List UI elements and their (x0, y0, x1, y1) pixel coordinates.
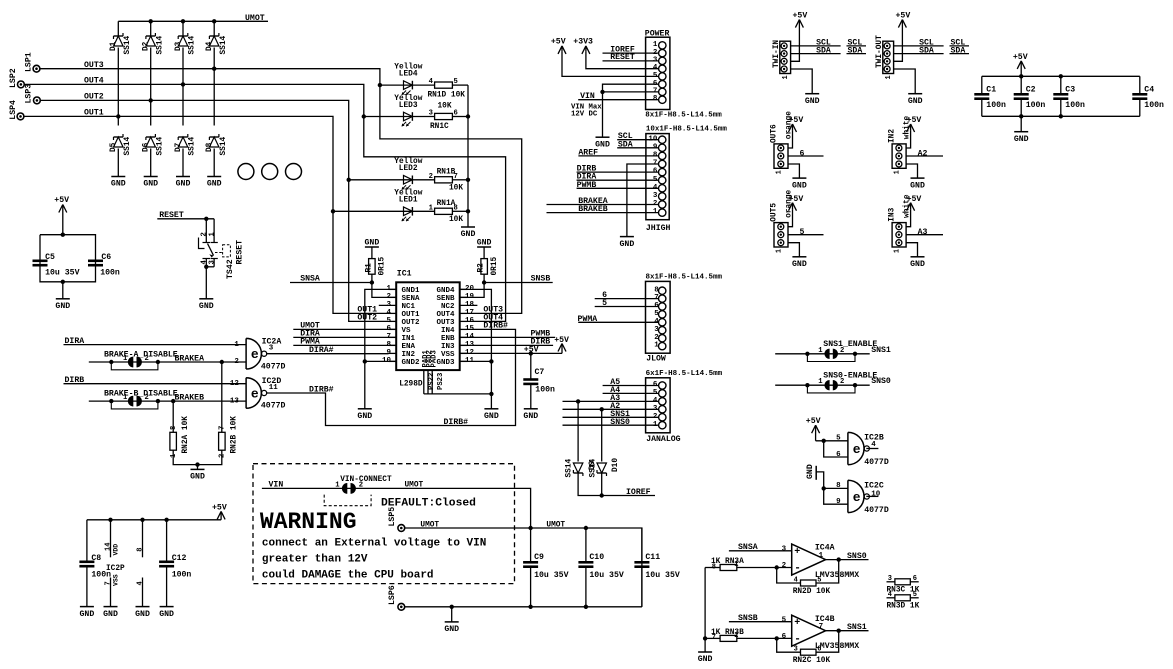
svg-text:+5V: +5V (806, 417, 821, 426)
svg-text:SNS0-ENABLE: SNS0-ENABLE (823, 372, 877, 381)
svg-text:10u 35V: 10u 35V (45, 269, 79, 278)
svg-text:100n: 100n (1026, 101, 1046, 110)
wire cap bank bottom rail (982, 115, 1140, 117)
svg-text:SNS1: SNS1 (871, 346, 891, 355)
svg-text:TWI-IN: TWI-IN (773, 40, 781, 68)
svg-text:8x1F-H8.5-L14.5mm: 8x1F-H8.5-L14.5mm (645, 111, 722, 119)
wire LED4 row (380, 84, 435, 86)
wire BRAKEB to IC2D pin13 (89, 400, 246, 402)
ground IC4P (135, 607, 150, 619)
wire +3V3 to POWER pin4 (586, 52, 659, 69)
svg-text:SNS0: SNS0 (610, 418, 630, 427)
junction jumper B left (109, 399, 113, 403)
wire RN3C right stub (910, 581, 918, 583)
wire net PWMA to pin8 (293, 344, 396, 346)
pin 1 IN3 (896, 240, 902, 246)
svg-text:OUT2: OUT2 (357, 314, 377, 323)
ground IC2C (rotated) (806, 464, 816, 480)
junction C3 bottom (1059, 114, 1063, 118)
svg-text:OUT6: OUT6 (770, 124, 778, 143)
resistor RN1A (435, 208, 453, 214)
wire SCL TWI-OUT (894, 45, 944, 47)
wire C2 bottom (1020, 99, 1022, 117)
wire IC4B output SNS1 (826, 630, 869, 632)
svg-text:AREF: AREF (578, 148, 598, 157)
svg-text:GND: GND (806, 464, 815, 479)
pin 11 IC1 GND3 (460, 360, 468, 362)
junction SNSB R2 (482, 280, 486, 284)
wire RN3B out (737, 637, 792, 639)
IC U1 L298 body (396, 282, 460, 370)
wire SDA stub TWI-IN (847, 53, 867, 55)
svg-text:D5: D5 (110, 142, 118, 152)
wire SCL stub TWI-IN (847, 45, 867, 47)
ground LSP6 rail (444, 622, 459, 634)
capacitor C11 (634, 562, 649, 566)
wire RN3B to IC4B pin6 (705, 637, 720, 639)
svg-text:0R15: 0R15 (491, 256, 499, 275)
pin 5 JLOW (659, 311, 666, 318)
svg-text:D1: D1 (110, 41, 118, 51)
resistor RN3C (895, 579, 910, 585)
pin 6 JLOW (659, 303, 666, 310)
junction UMOT C10 (584, 526, 588, 530)
svg-text:GND: GND (199, 302, 214, 311)
svg-text:6: 6 (782, 633, 787, 641)
svg-text:PS22: PS22 (428, 373, 436, 390)
wire D1 cathode to UMOT rail (117, 21, 119, 36)
svg-text:SS14: SS14 (189, 136, 197, 155)
svg-text:8: 8 (170, 426, 178, 430)
pin 3 JANALOG (659, 406, 666, 413)
svg-text:OUT4: OUT4 (436, 311, 455, 319)
svg-text:SS14: SS14 (565, 458, 573, 477)
junction pin10 GND (363, 359, 367, 363)
wire +5V pin12 (460, 352, 562, 354)
diode D7 (178, 134, 188, 147)
svg-text:+5V: +5V (212, 504, 227, 513)
wire C7 top (530, 353, 532, 379)
wire C10 top (585, 528, 587, 562)
XNOR gate IC2B (4077D) (836, 432, 889, 467)
junction D10 IOREF (600, 493, 604, 497)
wire +5V to POWER pin5 (562, 52, 658, 77)
wire SNS1_ENABLE (775, 353, 870, 355)
svg-text:GND: GND (477, 239, 492, 248)
pin 4 JLOW (659, 319, 666, 326)
junction IC4B pin6 (775, 636, 779, 640)
pin 2 IN3 (896, 232, 902, 238)
ground cap bank (1014, 132, 1029, 144)
svg-text:IC2P: IC2P (106, 565, 125, 573)
wire RN3 left rail (704, 568, 706, 653)
wire net A3 IN3 (906, 234, 943, 236)
svg-text:C5: C5 (45, 253, 55, 262)
wire JHIGH pin7 GND (627, 164, 658, 237)
svg-text:BRAKEB: BRAKEB (578, 205, 608, 214)
junction A2 D10 (600, 407, 604, 411)
resistor RN3A (720, 565, 737, 571)
pin 6 JHIGH (659, 168, 666, 175)
junction IC4A out (837, 557, 841, 561)
junction pin11 GND (489, 359, 493, 363)
wire C9 bottom (530, 567, 532, 607)
junction SNSA R1 (370, 280, 374, 284)
pin 3 IN3 (896, 224, 902, 230)
solder jumper BRAKE-B_DISABLE (128, 396, 133, 407)
svg-text:JLOW: JLOW (646, 354, 666, 363)
svg-text:GND: GND (805, 97, 820, 106)
svg-text:DIRB#: DIRB# (309, 385, 334, 394)
wire VIN to POWER pin8 (578, 99, 658, 101)
ground IC1 left (357, 409, 372, 421)
wire D10 vertical (601, 409, 603, 461)
svg-text:GND: GND (190, 473, 205, 482)
wire net SNSB (484, 282, 553, 284)
junction sym rail (140, 518, 144, 522)
svg-text:NC1: NC1 (402, 303, 416, 311)
svg-text:2: 2 (840, 347, 844, 355)
ground IN2 (910, 178, 925, 190)
junction RN2 GND node (195, 462, 199, 466)
svg-text:DIRA#: DIRA# (309, 346, 334, 355)
wire LED GND bus (467, 85, 469, 227)
pin 1 JANALOG (659, 422, 666, 429)
ground C7 (523, 409, 538, 421)
wire C12 bottom (166, 566, 168, 606)
ground OUT6 (792, 178, 807, 190)
power +5V IN3 (907, 195, 922, 211)
wire SCL TWI-IN (791, 45, 841, 47)
resistor RN2C (801, 649, 817, 655)
junction C2 bottom (1019, 114, 1023, 118)
svg-text:GND: GND (620, 240, 635, 249)
svg-text:5: 5 (836, 435, 841, 443)
svg-text:+5V: +5V (1013, 53, 1028, 62)
svg-text:2: 2 (145, 355, 149, 363)
wire LED4 resistor to bus (452, 84, 468, 86)
wire C11 bottom (641, 567, 643, 607)
svg-text:C1: C1 (986, 86, 996, 95)
svg-text:10x1F-H8.5-L14.5mm: 10x1F-H8.5-L14.5mm (646, 126, 728, 134)
svg-text:IN1: IN1 (402, 335, 416, 343)
svg-text:GND: GND (143, 180, 158, 189)
svg-text:10u 35V: 10u 35V (534, 571, 568, 580)
svg-text:IC4A: IC4A (815, 544, 835, 553)
pin 8 JLOW (659, 287, 666, 294)
svg-text:7: 7 (819, 623, 824, 631)
connector OUT5 body (774, 223, 788, 247)
svg-text:GND: GND (1014, 135, 1029, 144)
svg-text:PS23: PS23 (437, 373, 445, 390)
pin 5 POWER (659, 73, 666, 80)
svg-text:PAD3: PAD3 (430, 350, 438, 367)
svg-text:LSP3: LSP3 (25, 84, 34, 104)
wire BRAKEA junction to RN2B (221, 362, 223, 432)
wire POWER pin7 GND (603, 91, 659, 93)
resistor RN2A (170, 432, 177, 450)
wire PAD bus to GND (424, 393, 492, 395)
wire +5V TWI-IN (791, 30, 800, 61)
wire D2 cathode to UMOT rail (150, 21, 152, 36)
svg-text:GND: GND (55, 302, 70, 311)
svg-text:GND: GND (444, 625, 459, 634)
capacitor C1 (974, 94, 989, 98)
svg-text:3: 3 (888, 575, 892, 583)
pin 19 IC1 SENB (460, 296, 468, 298)
pin 1 POWER (659, 42, 666, 49)
diode D4 (209, 33, 219, 46)
power +5V C5 block (54, 196, 69, 235)
svg-text:1: 1 (654, 342, 659, 350)
svg-text:1: 1 (893, 249, 901, 253)
svg-text:2: 2 (359, 481, 363, 489)
power +5V IC2B (806, 417, 821, 441)
pin 6 POWER (659, 81, 666, 88)
svg-text:100n: 100n (535, 386, 555, 395)
svg-text:PWMB: PWMB (577, 181, 597, 190)
svg-text:GND1: GND1 (402, 287, 421, 295)
svg-text:SS14: SS14 (220, 35, 228, 54)
power +3V3 (573, 37, 593, 54)
svg-text:2: 2 (218, 454, 226, 458)
svg-text:IC2A: IC2A (262, 338, 282, 347)
svg-text:GND: GND (792, 181, 807, 190)
ground under D8 (207, 177, 222, 189)
svg-text:UMOT: UMOT (245, 14, 265, 23)
wire jumper B bypass (111, 401, 158, 409)
wire PAD1 stub (423, 370, 425, 394)
pin 5 JANALOG (659, 390, 666, 397)
pin 2 TWI-IN (781, 58, 787, 64)
wire RN3A out (737, 567, 792, 569)
wire DIRB to IC2D pin12 (64, 383, 247, 385)
pin 10 JHIGH (659, 136, 666, 143)
wire pin2 SENA (372, 283, 396, 298)
wire SDA TWI-IN (791, 53, 841, 55)
svg-text:2: 2 (782, 562, 787, 570)
svg-text:1: 1 (429, 204, 434, 212)
svg-text:RN1D 10K: RN1D 10K (428, 92, 466, 100)
wire IC2B pin6 (824, 441, 848, 457)
svg-text:+5V: +5V (896, 12, 911, 21)
wire D3 cathode to UMOT rail (182, 21, 184, 36)
svg-text:SS14: SS14 (124, 35, 132, 54)
svg-text:3: 3 (208, 260, 216, 264)
svg-text:4: 4 (386, 309, 391, 317)
svg-text:+5V: +5V (793, 12, 808, 21)
power +5V IN2 (907, 116, 922, 132)
pin 1 TWI-OUT (884, 66, 890, 72)
svg-text:PWMA: PWMA (578, 315, 598, 324)
junction jumper B right (156, 399, 160, 403)
diode D3 (178, 33, 188, 46)
pin 4 JHIGH (659, 185, 666, 192)
pin 2 POWER (659, 49, 666, 56)
svg-text:IN2: IN2 (402, 351, 416, 359)
svg-text:DIRB#: DIRB# (444, 418, 469, 427)
svg-text:could DAMAGE the CPU board: could DAMAGE the CPU board (262, 569, 434, 581)
svg-text:GND: GND (365, 239, 380, 248)
wire IC2P VSS (110, 578, 112, 607)
pin 1 JLOW (659, 342, 666, 349)
svg-text:VIN: VIN (269, 480, 284, 489)
wire SCL JHIGH (617, 139, 658, 141)
wire +5V OUT5 (788, 209, 793, 227)
pin 3 OUT6 (778, 145, 784, 151)
pin 3 JLOW (659, 327, 666, 334)
svg-text:SENA: SENA (402, 295, 421, 303)
ground IN3 (910, 257, 925, 269)
svg-text:1: 1 (893, 170, 901, 174)
solder jumper SNS0-ENABLE (824, 380, 829, 390)
wire IC2C output (866, 495, 878, 497)
svg-text:GND3: GND3 (436, 359, 455, 367)
svg-text:R2: R2 (478, 263, 486, 273)
wire AREF JHIGH (578, 155, 658, 157)
wire IC2D output DIRB# (267, 329, 516, 425)
svg-text:IC2B: IC2B (864, 434, 884, 443)
resistor RN1B (435, 177, 453, 183)
wire net 5 JLOW pin6 (595, 306, 659, 308)
resistor RN2B (219, 432, 226, 450)
resistor RN3D (895, 595, 910, 601)
svg-text:3: 3 (782, 545, 787, 553)
svg-text:5: 5 (782, 616, 787, 624)
pin 2 OUT6 (778, 153, 784, 159)
wire SCL stub TWI-OUT (950, 45, 970, 47)
solder pad LSP1 (33, 65, 40, 72)
wire SNS0-ENABLE (775, 384, 870, 386)
wire SNS1_ENABLE bypass (807, 354, 855, 362)
svg-text:LSP4: LSP4 (9, 100, 18, 120)
wire C8 bottom (86, 566, 88, 606)
svg-text:RESET: RESET (236, 240, 245, 265)
svg-text:C3: C3 (1065, 86, 1075, 95)
junction IC4B out (837, 629, 841, 633)
junction IC2C inputs (822, 486, 826, 490)
svg-text:IN4: IN4 (441, 327, 455, 335)
svg-text:SDA: SDA (618, 140, 633, 149)
svg-text:+5V: +5V (907, 116, 922, 125)
svg-text:GND: GND (792, 260, 807, 269)
LED LED1 (Yellow) (402, 207, 413, 221)
svg-text:OUT3: OUT3 (84, 61, 104, 70)
svg-text:100n: 100n (986, 101, 1006, 110)
svg-text:LMV358MMX: LMV358MMX (815, 571, 859, 580)
svg-text:4: 4 (888, 591, 892, 599)
svg-text:LSP1: LSP1 (25, 52, 34, 72)
svg-text:D2: D2 (143, 41, 151, 51)
wire UMOT rail (118, 20, 268, 22)
svg-text:LMV358MMX: LMV358MMX (815, 642, 859, 651)
svg-text:GND: GND (461, 230, 476, 239)
svg-text:GND: GND (908, 97, 923, 106)
svg-text:RN2D 10K: RN2D 10K (793, 588, 831, 596)
svg-text:1: 1 (123, 355, 128, 363)
wire cap bank GND (1020, 116, 1022, 131)
junction UMOT rail col4 (212, 19, 216, 23)
wire net 6 JLOW pin7 (595, 298, 659, 300)
svg-text:GND: GND (910, 181, 925, 190)
diode D9 (573, 463, 583, 476)
svg-text:SNSA: SNSA (738, 543, 758, 552)
solder pad LSP4 (17, 113, 24, 120)
resistor R2 0R15 (481, 259, 488, 275)
solder jumper SNS1_ENABLE (824, 349, 829, 359)
svg-text:SS14: SS14 (590, 458, 598, 477)
pin 3 IC1 NC1 (379, 304, 396, 306)
wire net A2 IN2 (906, 155, 943, 157)
wire net OUT3 (40, 69, 522, 314)
wire SDA JHIGH (617, 147, 658, 149)
connector TWI-IN body (780, 41, 791, 73)
svg-text:5: 5 (913, 591, 917, 599)
svg-text:3: 3 (654, 326, 659, 334)
svg-text:3: 3 (653, 192, 658, 200)
svg-text:OUT2: OUT2 (84, 93, 104, 102)
wire GND IN3 (906, 243, 917, 257)
wire box to GND (62, 282, 64, 299)
junction C12 rail (164, 518, 168, 522)
junction UMOT C9 (528, 526, 532, 530)
LED LED4 (Yellow) (402, 81, 413, 95)
resistor RN3B (720, 635, 737, 641)
resistor R1 0R15 (369, 259, 376, 275)
wire IC2P VDD (110, 520, 112, 558)
pin 17 IC1 OUT4 (460, 312, 468, 314)
svg-text:A3: A3 (918, 228, 928, 237)
svg-text:17: 17 (465, 309, 474, 317)
junction jumper A right (156, 360, 160, 364)
svg-text:LSP2: LSP2 (9, 68, 18, 88)
ground C8 (80, 607, 95, 619)
svg-text:R1: R1 (365, 263, 373, 273)
wire GND4 to ground (460, 289, 492, 408)
drill hole marks (238, 164, 302, 180)
LED LED2 (Yellow) (402, 176, 413, 190)
wire C1 bottom (981, 99, 983, 117)
svg-text:OUT1: OUT1 (84, 109, 104, 118)
junction C7 tap (529, 351, 533, 355)
power +5V C8 block (212, 504, 227, 520)
svg-text:1: 1 (335, 481, 340, 489)
wire R2 top to GND (483, 247, 485, 259)
svg-text:8x1F-H8.5-L14.5mm: 8x1F-H8.5-L14.5mm (646, 273, 723, 281)
ground IC2P (103, 607, 118, 619)
junction OUT2 at D2 column (149, 98, 153, 102)
wire D9 vertical (577, 401, 579, 461)
pin 13 IC1 IN3 (460, 344, 468, 346)
wire GND rail stem (451, 607, 453, 622)
svg-text:UMOT: UMOT (420, 521, 439, 529)
svg-text:VIN-CONNECT: VIN-CONNECT (340, 476, 392, 484)
svg-text:D3: D3 (175, 41, 183, 51)
svg-text:1: 1 (775, 170, 783, 174)
svg-text:C7: C7 (535, 368, 545, 377)
pin 15 IC1 IN4 (460, 328, 468, 330)
svg-text:LED4: LED4 (399, 71, 418, 79)
svg-text:6: 6 (836, 451, 841, 459)
pin 5 JHIGH (659, 177, 666, 184)
svg-text:4: 4 (137, 581, 145, 585)
svg-text:IC2C: IC2C (864, 482, 884, 491)
svg-text:RN3D 1K: RN3D 1K (887, 603, 920, 611)
svg-text:RESET: RESET (159, 211, 184, 220)
svg-text:4077D: 4077D (864, 458, 889, 467)
pin 12 IC1 VSS (460, 352, 468, 354)
svg-text:SNSB: SNSB (738, 614, 758, 623)
